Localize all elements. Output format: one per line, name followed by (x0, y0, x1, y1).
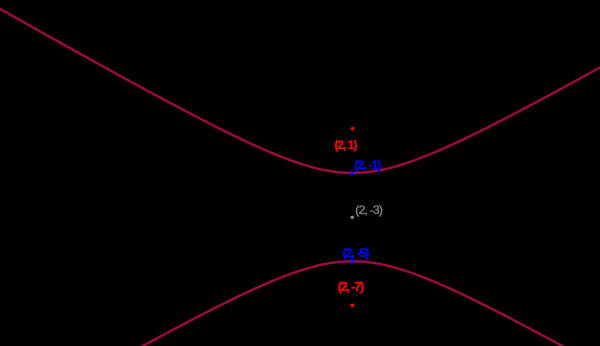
hyperbola bottom branch (0, 261, 600, 346)
center dot (2,-3) (351, 216, 354, 219)
label (2, -1) (355, 158, 381, 172)
label (2, -3) (355, 203, 382, 217)
focus dot bottom (2,-7) (351, 304, 355, 308)
hyperbola top branch (0, 6, 600, 174)
label (2, 1) (335, 140, 357, 152)
focus dot top (2,1) (351, 127, 355, 131)
vertex x marker top (2,-1) (350, 171, 355, 176)
label (2, -5) (343, 246, 369, 260)
label (2, -7) (338, 279, 363, 294)
vertex x marker bottom (2,-5) (350, 259, 355, 264)
